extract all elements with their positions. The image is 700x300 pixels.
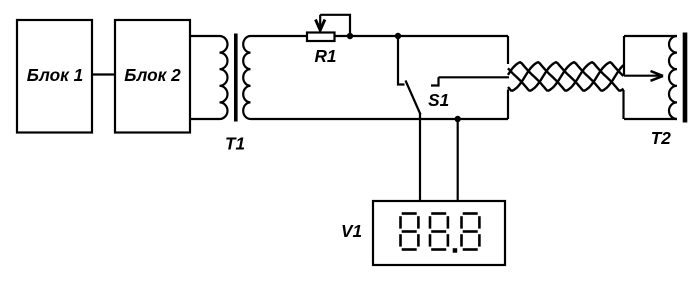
svg-text:S1: S1: [428, 90, 449, 110]
svg-text:Блок 2: Блок 2: [124, 65, 181, 85]
svg-text:Блок 1: Блок 1: [27, 65, 83, 85]
svg-text:Т2: Т2: [651, 128, 671, 148]
svg-text:R1: R1: [315, 46, 337, 66]
svg-text:V1: V1: [341, 221, 362, 241]
svg-text:Т1: Т1: [225, 134, 245, 154]
